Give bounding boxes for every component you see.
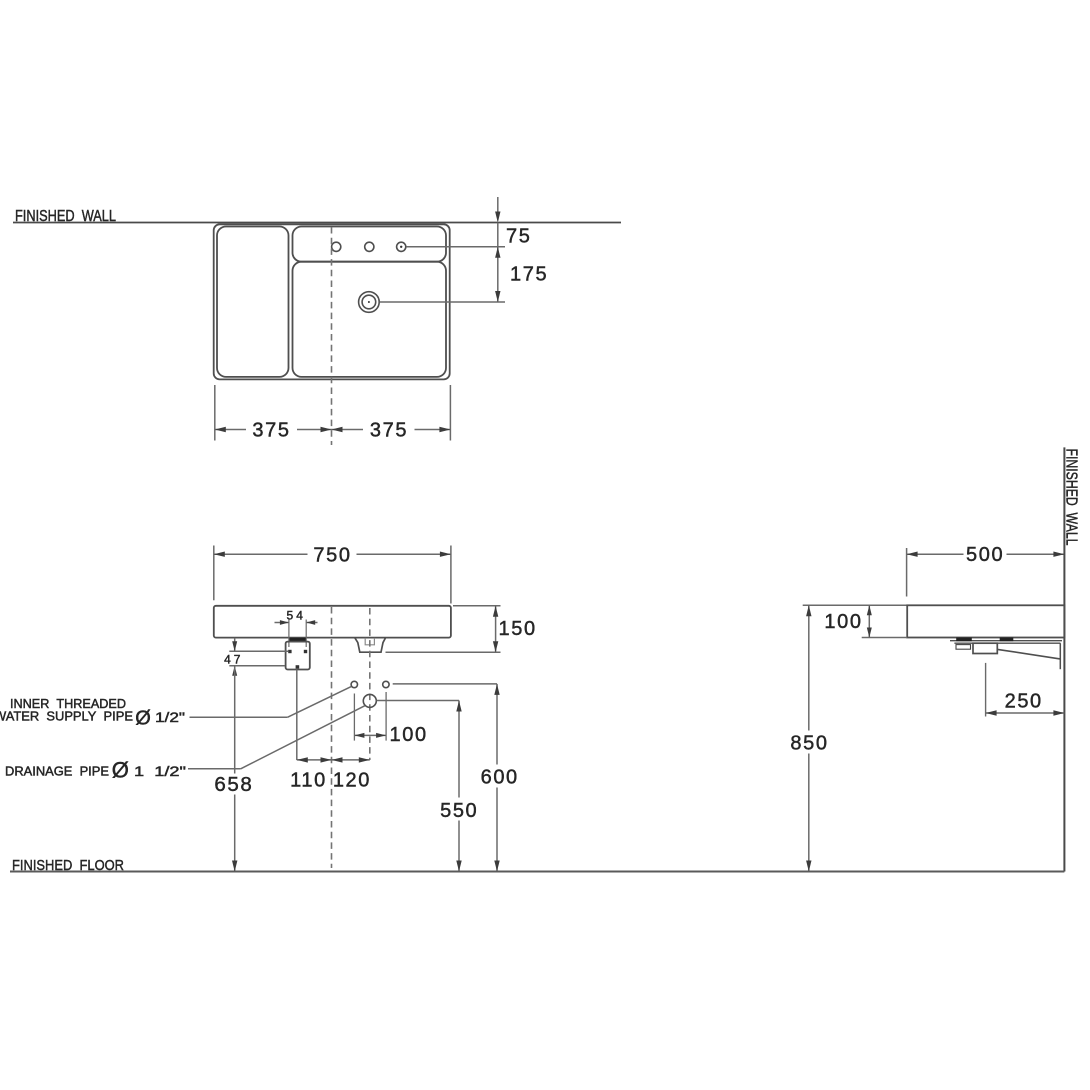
arrow 658 up / 47 up: [232, 666, 237, 676]
ext 250 left: [985, 663, 987, 717]
svg-text:WATER SUPPLY PIPE: WATER SUPPLY PIPE: [0, 710, 133, 724]
hanger strip line: [950, 640, 1062, 642]
supply fitting body: [286, 642, 310, 670]
drain boss (front): [355, 638, 386, 652]
svg-text:FINISHED WALL: FINISHED WALL: [1062, 449, 1079, 546]
svg-text:500: 500: [966, 544, 1004, 566]
dim 850 line upper: [808, 605, 810, 730]
trap box: [973, 643, 997, 653]
bracket left step: [956, 645, 971, 650]
svg-text:75: 75: [506, 225, 531, 247]
hanger bolt right (black): [1000, 638, 1013, 641]
ext 54 left: [288, 620, 290, 648]
dim line 375b seg2: [415, 429, 451, 431]
svg-text:100: 100: [390, 724, 428, 746]
svg-text:375: 375: [370, 420, 408, 442]
arrow 375a right: [321, 427, 332, 432]
wall offset arrow stem: [497, 197, 499, 221]
arrow 54 left: [280, 620, 289, 625]
dim line 750 seg1: [214, 553, 308, 555]
dim 658 line upper: [234, 666, 236, 774]
ext line 150 bottom: [386, 651, 501, 653]
svg-text:375: 375: [252, 420, 290, 442]
svg-text:Ø: Ø: [135, 708, 151, 730]
leader from drain: [380, 301, 505, 303]
fixing hole right: [383, 681, 389, 687]
ext 100 left: [353, 694, 355, 741]
arrow 100side top: [867, 605, 872, 615]
arrow 850 up: [806, 605, 811, 616]
arrow 175 top: [495, 247, 500, 258]
dim 110 line: [297, 759, 332, 761]
arrow 375b left: [332, 427, 343, 432]
ext 47 bottom: [229, 665, 285, 667]
svg-text:FINISHED WALL: FINISHED WALL: [15, 208, 116, 225]
svg-text:175: 175: [510, 264, 548, 286]
ext line 850/100 top: [803, 604, 908, 606]
ext 100 right: [385, 692, 387, 741]
ext 47 top: [229, 650, 288, 652]
drain center line (front view): [369, 608, 371, 760]
fitting flange (black): [290, 638, 305, 641]
arrow 110 right: [321, 757, 332, 762]
fixing hole left: [351, 681, 357, 687]
svg-text:1 1/2": 1 1/2": [134, 764, 186, 779]
svg-text:1/2": 1/2": [155, 710, 185, 725]
bowl recess: [293, 262, 447, 377]
leader drainage slanted: [241, 706, 365, 769]
ext line 500 left: [906, 548, 908, 597]
svg-text:850: 850: [790, 733, 828, 755]
arrow 750 right: [440, 552, 451, 557]
arrow 750 left: [214, 552, 225, 557]
arrow 550 up: [456, 701, 461, 712]
svg-text:600: 600: [481, 766, 519, 788]
svg-text:47: 47: [224, 653, 243, 667]
arrow 658 down at floor: [232, 861, 237, 872]
svg-text:550: 550: [440, 800, 478, 822]
leader supply horizontal: [190, 716, 288, 718]
ext line 750 left: [213, 546, 215, 601]
supply pipe ext line: [296, 670, 298, 761]
svg-text:120: 120: [333, 770, 371, 792]
drain pipe circle: [363, 694, 376, 707]
ext 54 right: [305, 620, 307, 648]
arrow 250 left: [986, 710, 997, 715]
basin body (side view): [907, 605, 1064, 637]
svg-text:Ø: Ø: [112, 758, 129, 783]
arrow 250 right: [1053, 710, 1064, 715]
dim 75 line: [497, 223, 499, 247]
arrow 150 bottom: [493, 641, 498, 652]
dim 600 line upper: [496, 684, 498, 765]
drain inner circle: [362, 295, 376, 309]
dim 550 line upper: [458, 701, 460, 798]
faucet hole 1: [332, 242, 341, 251]
finished wall line (side view): [1063, 447, 1065, 871]
hanger bolt left (black): [957, 638, 972, 641]
dim 175 line: [497, 247, 499, 302]
dim 658 line lower: [234, 795, 236, 872]
dim line 375b seg1: [332, 429, 364, 431]
dim line 500 seg1: [907, 553, 964, 555]
ext line 375 right: [449, 385, 451, 441]
leader drainage horizontal: [188, 768, 241, 770]
basin outer rim (top view): [214, 224, 450, 379]
basin body (front view): [214, 606, 451, 638]
center line (top view): [331, 227, 333, 445]
bracket back plate: [1059, 643, 1061, 669]
faucet hole 2: [365, 242, 374, 251]
arrow 100 left: [354, 733, 364, 738]
arrow 375b right: [439, 427, 450, 432]
dim line 375a seg2: [297, 429, 332, 431]
faucet hole 3: [397, 242, 406, 251]
dim line 750 seg2: [357, 553, 451, 555]
arrow 600 up: [494, 684, 499, 695]
bracket plate top: [954, 642, 1060, 644]
arrow 375a left: [215, 427, 226, 432]
svg-text:DRAINAGE PIPE: DRAINAGE PIPE: [5, 765, 109, 779]
ext line 750 right: [450, 546, 452, 604]
svg-text:100: 100: [824, 611, 862, 633]
arrow 500 right: [1053, 552, 1064, 557]
arrow 150 top: [493, 606, 498, 617]
fitting tick left: [289, 650, 292, 653]
arrow 600 down: [494, 861, 499, 872]
svg-text:658: 658: [214, 773, 253, 796]
ext line 150 top: [453, 605, 501, 607]
dim 54 left seg: [275, 622, 289, 624]
arrow 47 down: [232, 641, 237, 651]
dim 100 line side: [868, 605, 870, 637]
bracket diagonal brace: [998, 649, 1061, 659]
dim 250 line: [986, 712, 1065, 714]
left deck recess: [217, 227, 289, 377]
fitting tick bottom: [296, 666, 299, 669]
arrow 100side bottom: [867, 628, 872, 638]
dim 150 line: [495, 606, 497, 653]
svg-text:110: 110: [290, 770, 327, 792]
leader from faucet hole: [406, 246, 505, 248]
dim 600 line lower: [496, 788, 498, 872]
dim 47 upper stem: [234, 638, 236, 651]
arrow 850 down: [806, 861, 811, 872]
svg-text:FINISHED FLOOR: FINISHED FLOOR: [12, 857, 124, 874]
arrow 100 right: [376, 733, 386, 738]
drain center dot: [368, 301, 370, 303]
arrow 120 right: [359, 757, 370, 762]
dim 120 line: [332, 759, 370, 761]
center line (front view): [331, 607, 333, 868]
arrow 54 right: [306, 620, 315, 625]
drain outer circle: [359, 292, 380, 313]
svg-text:150: 150: [499, 618, 537, 640]
leader supply slanted: [288, 687, 352, 718]
finished wall line (top view): [13, 222, 621, 224]
finished floor line: [10, 871, 1064, 873]
ext line 100 bottom: [862, 637, 908, 639]
dim 54 right seg: [306, 622, 317, 624]
fitting tick right: [304, 650, 307, 653]
arrow 550 down: [456, 861, 461, 872]
svg-text:250: 250: [1005, 690, 1043, 712]
drain boss inner detail: [365, 638, 374, 645]
faucet deck strip: [293, 227, 447, 262]
dim line 375a seg1: [215, 429, 246, 431]
leader fixing hole to 600: [393, 683, 497, 685]
dim 550 line lower: [458, 821, 460, 872]
svg-text:750: 750: [313, 544, 351, 566]
arrow 500 left: [907, 552, 918, 557]
arrow 175 bottom: [495, 291, 500, 302]
arrow 120 left: [332, 757, 343, 762]
faucet hole 3 center dot: [400, 246, 402, 248]
dim 850 line lower: [808, 754, 810, 872]
dim 100 line: [354, 734, 386, 736]
ext line 375 left: [214, 385, 216, 441]
arrow 110 left: [297, 757, 308, 762]
dim line 500 seg2: [1007, 553, 1065, 555]
leader drain to 550: [377, 700, 459, 702]
arrow down to wall line: [495, 212, 500, 223]
